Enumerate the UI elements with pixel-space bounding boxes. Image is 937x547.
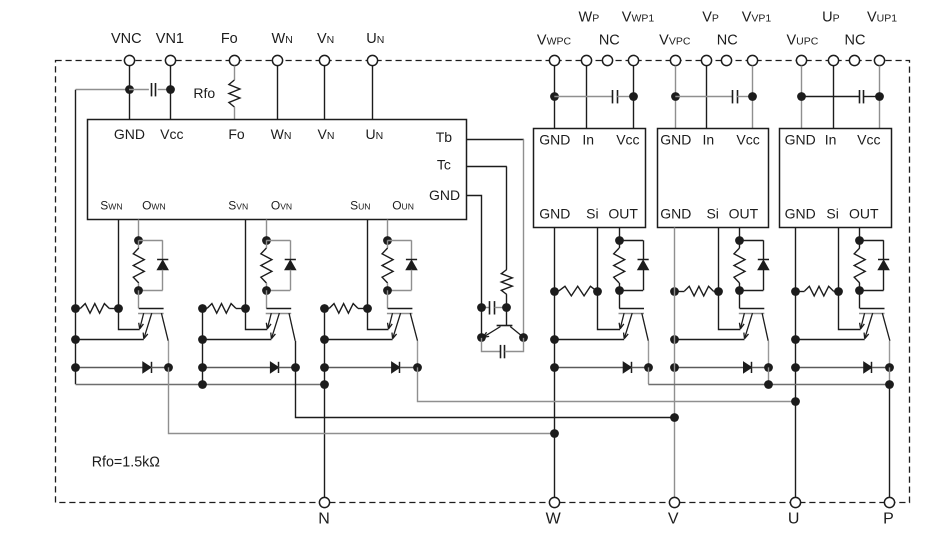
wire emitter row 6 <box>795 339 865 341</box>
wire V-phase rail <box>674 227 676 497</box>
node rail-5 emitter junction <box>670 335 679 344</box>
diode D5 (gate speed-up) <box>740 240 770 290</box>
resistor R13 (Tc) <box>501 270 512 295</box>
wire OUN to gate <box>387 290 389 308</box>
capacitor C4 (supply decoupling) <box>802 90 879 103</box>
resistor R2 (gate) <box>261 240 272 290</box>
svg-text:NC: NC <box>599 32 620 48</box>
resistor R4 (gate) <box>614 240 625 290</box>
node P bus U junction <box>885 380 894 389</box>
node N bus rail-2 junction <box>198 380 207 389</box>
wire VNC to IC <box>129 66 131 120</box>
terminal VWP1 <box>622 10 655 66</box>
wire OUT-V gate line <box>739 227 741 240</box>
node OWN net bottom <box>134 286 143 295</box>
resistor R9 (sense) <box>324 304 367 314</box>
terminal P <box>883 497 894 527</box>
wire N-rail 3 <box>324 308 326 384</box>
svg-text:GND: GND <box>429 187 460 203</box>
wire collector 6 drop <box>889 341 891 368</box>
resistor R6 (gate) <box>854 240 865 290</box>
wire UN to IC <box>372 66 374 120</box>
pin label WN (U1 top) <box>271 126 292 142</box>
pin label Si (U2 (W-phase HVIC)) <box>586 206 598 222</box>
terminal VUP1 <box>867 10 897 66</box>
svg-text:WP: WP <box>579 10 600 26</box>
terminal VUPC <box>786 32 818 65</box>
wire GND link <box>467 196 482 308</box>
svg-text:Vcc: Vcc <box>160 126 183 142</box>
wire OUT-V to gate <box>739 290 741 308</box>
svg-text:UP: UP <box>822 10 840 26</box>
svg-text:UN: UN <box>366 31 384 47</box>
wire SVN to sense emitter <box>246 308 268 329</box>
transistor Q5 (V high) body bar <box>739 313 765 315</box>
node rail-3 sense junction <box>320 304 329 313</box>
transistor Q4 (W high) main emitter <box>624 313 633 339</box>
transistor Q1 (W low) collector lead <box>161 313 168 341</box>
wire N bus <box>76 384 325 386</box>
pin label GND (U3 (V-phase HVIC) top) <box>660 132 691 148</box>
pin label GND (U4 (U-phase HVIC) top) <box>785 132 816 148</box>
terminal N <box>318 497 330 527</box>
node U2 (W-phase HVIC) Vcc junction <box>629 92 638 101</box>
wire emitter row 1 <box>76 339 144 341</box>
transistor Q3 (U low) gate bar <box>388 308 413 310</box>
node Si-U junction <box>834 287 843 296</box>
svg-text:GND: GND <box>539 132 570 148</box>
svg-text:In: In <box>582 132 594 148</box>
svg-text:GND: GND <box>539 206 570 222</box>
wire P terminal stub <box>889 384 891 498</box>
transistor Q2 (V low) body bar <box>266 313 292 315</box>
diode D3 (gate speed-up) <box>388 240 418 290</box>
node U4 (U-phase HVIC) GND junction <box>797 92 806 101</box>
low-side driver IC U1 <box>88 120 467 220</box>
pin label SVN <box>228 198 248 212</box>
diode D6 (gate speed-up) <box>860 240 890 290</box>
transistor Q1 (W low) body bar <box>138 313 164 315</box>
transistor Q3 (U low) body bar <box>387 313 413 315</box>
pin label SUN <box>350 198 370 212</box>
pin label GND (U1 right) <box>429 187 460 203</box>
wire P bus riser W <box>648 367 650 384</box>
svg-text:GND: GND <box>785 206 816 222</box>
node U-phase link junction <box>791 397 800 406</box>
node N bus rail-3 junction <box>320 380 329 389</box>
svg-text:NC: NC <box>717 32 738 48</box>
node OUT-V net top <box>735 236 744 245</box>
wire OVN to gate <box>266 290 268 308</box>
resistor R8 (sense) <box>202 304 245 314</box>
svg-text:OUT: OUT <box>608 206 638 222</box>
transistor Q2 (V low) main emitter <box>271 313 280 339</box>
pin label In (U2 (W-phase HVIC)) <box>582 132 594 148</box>
svg-text:GND: GND <box>114 126 145 142</box>
diode D2 (gate speed-up) <box>266 240 296 290</box>
node OUN net top <box>383 236 392 245</box>
terminal U <box>788 497 801 527</box>
wire OVN gate line <box>266 220 268 241</box>
svg-text:WN: WN <box>272 31 293 47</box>
pin label GND (U2 (W-phase HVIC) bottom) <box>539 206 570 222</box>
node rail-1 emitter junction <box>71 335 80 344</box>
svg-text:Tc: Tc <box>437 156 451 172</box>
node collector-1 diode junction <box>164 363 173 372</box>
node rail-1 diode junction <box>71 363 80 372</box>
wire Si-U to sense emitter <box>839 291 861 329</box>
wire collector 2 drop <box>295 341 297 368</box>
wire U2 (W-phase HVIC) GND-supply stub <box>554 66 556 129</box>
wire OWN to gate <box>138 290 140 308</box>
wire VN1 to IC <box>170 66 172 120</box>
node OUT-W net top <box>615 236 624 245</box>
svg-text:VN1: VN1 <box>156 31 184 47</box>
svg-text:VVP1: VVP1 <box>742 10 772 26</box>
node OWN net top <box>134 236 143 245</box>
module boundary (dashed outline) <box>56 61 910 503</box>
svg-text:Vcc: Vcc <box>736 132 759 148</box>
driver block U2 (W-phase HVIC) <box>534 129 646 228</box>
transistor Q5 (V high) sense emitter <box>739 313 744 329</box>
pin label VN (U1 top) <box>318 126 335 142</box>
wire T base <box>506 308 508 325</box>
svg-text:N: N <box>318 510 330 527</box>
node U3 (V-phase HVIC) Vcc junction <box>748 92 757 101</box>
pin label OWN <box>142 198 166 212</box>
svg-text:Tb: Tb <box>436 129 453 145</box>
wire SVN sense line <box>245 220 247 309</box>
terminal UN <box>366 31 384 65</box>
node U4 (U-phase HVIC) Vcc junction <box>875 92 884 101</box>
capacitor C2 (supply decoupling) <box>554 90 633 103</box>
driver block U4 (U-phase HVIC) <box>780 129 892 228</box>
terminal VN <box>317 31 334 65</box>
terminal NC (NC) <box>717 32 738 65</box>
node OUT-U net bottom <box>855 286 864 295</box>
capacitor C3 (supply decoupling) <box>675 90 752 103</box>
pin label GND (U1 top) <box>114 126 145 142</box>
node rail-2 diode junction <box>198 363 207 372</box>
wire WN to IC <box>277 66 279 120</box>
wire U-phase rail <box>795 227 797 497</box>
pin label OUT (U3 (V-phase HVIC)) <box>729 206 759 222</box>
terminal NC (NC) <box>599 32 620 65</box>
svg-text:GND: GND <box>660 206 691 222</box>
wire OUT-W to gate <box>619 290 621 308</box>
node collector-6 diode junction <box>885 363 894 372</box>
wire N terminal stub <box>324 384 326 497</box>
wire SWN to sense emitter <box>119 308 140 329</box>
pin label In (U4 (U-phase HVIC)) <box>825 132 837 148</box>
wire Si-U sense line <box>838 227 840 291</box>
wire Tb <box>467 139 524 338</box>
wire U3 (V-phase HVIC) Vcc stub <box>752 66 754 129</box>
wire SWN sense line <box>118 220 120 309</box>
transistor Q4 (W high) collector lead <box>642 313 649 341</box>
pin label OUT (U2 (W-phase HVIC)) <box>608 206 638 222</box>
wire Fo lower stub <box>234 107 236 119</box>
node W-phase link junction <box>550 429 559 438</box>
terminal Fo <box>221 31 240 65</box>
pin label UN (U1 top) <box>366 126 384 142</box>
transistor Q5 (V high) gate bar <box>740 308 765 310</box>
wire SUN to sense emitter <box>368 308 389 329</box>
terminal W <box>546 497 562 527</box>
wire Si-V to sense emitter <box>719 291 741 329</box>
transistor Q3 (U low) main emitter <box>392 313 401 339</box>
pin label Vcc (U4 (U-phase HVIC)) <box>857 132 880 148</box>
node OVN net bottom <box>262 286 271 295</box>
node rail-6 diode junction <box>791 363 800 372</box>
resistor Rfo <box>193 80 239 107</box>
pin label OUT (U4 (U-phase HVIC)) <box>849 206 879 222</box>
wire collector 4 drop <box>648 341 650 368</box>
transistor Q5 (V high) collector lead <box>762 313 768 341</box>
terminal VVPC <box>659 32 691 65</box>
svg-text:Rfo=1.5kΩ: Rfo=1.5kΩ <box>92 455 161 471</box>
transistor Q7 (temp sensor) <box>483 326 523 338</box>
diode FWD1 (antiparallel) <box>76 362 169 373</box>
transistor Q4 (W high) body bar <box>619 313 645 315</box>
diode D4 (gate speed-up) <box>619 240 649 290</box>
svg-text:VN: VN <box>317 31 334 47</box>
node rail-1 sense junction <box>71 304 80 313</box>
pin label OVN <box>271 198 292 212</box>
wire Si-W to sense emitter <box>598 291 621 329</box>
wire P bus <box>648 384 890 386</box>
transistor Q6 (U high) gate bar <box>860 308 885 310</box>
capacitor C_N (VNC-VN1) <box>129 83 170 96</box>
resistor R5 (gate) <box>734 240 745 290</box>
node rail-2 sense junction <box>198 304 207 313</box>
node rail-5 diode junction <box>670 363 679 372</box>
node Q7 collector (Tb) <box>519 333 528 342</box>
wire VN to IC <box>324 66 326 120</box>
wire N-rail 2 <box>202 308 204 384</box>
wire U3 (V-phase HVIC) In stub <box>706 66 708 129</box>
pin label Vcc (U3 (V-phase HVIC)) <box>736 132 759 148</box>
svg-text:Fo: Fo <box>221 31 238 47</box>
pin label Vcc (U1 top) <box>160 126 183 142</box>
svg-text:P: P <box>883 510 894 527</box>
resistor R7 (sense) <box>76 304 119 314</box>
node VN1 junction <box>166 85 175 94</box>
terminal NC (NC) <box>845 32 866 65</box>
transistor Q2 (V low) collector lead <box>289 313 295 341</box>
node collector-3 diode junction <box>413 363 422 372</box>
node Si-V junction <box>714 287 723 296</box>
svg-text:In: In <box>703 132 715 148</box>
terminal WN <box>272 31 293 65</box>
pin label GND (U4 (U-phase HVIC) bottom) <box>785 206 816 222</box>
terminal V <box>668 497 680 527</box>
wire OWN gate line <box>138 220 140 241</box>
svg-text:OUT: OUT <box>729 206 759 222</box>
node OVN net top <box>262 236 271 245</box>
svg-text:GND: GND <box>660 132 691 148</box>
svg-text:Rfo: Rfo <box>193 85 215 101</box>
svg-text:VWPC: VWPC <box>537 32 572 48</box>
svg-text:Si: Si <box>826 206 838 222</box>
svg-text:OWN: OWN <box>142 198 166 212</box>
transistor Q4 (W high) sense emitter <box>619 313 624 329</box>
svg-text:VNC: VNC <box>111 31 142 47</box>
wire U3 (V-phase HVIC) GND-supply stub <box>675 66 677 129</box>
node V-phase link junction <box>670 413 679 422</box>
transistor Q3 (U low) sense emitter <box>388 313 393 329</box>
node Tc <box>502 303 511 312</box>
wire emitter row 2 <box>202 339 271 341</box>
transistor Q1 (W low) sense emitter <box>139 313 144 329</box>
pin label Tb <box>436 129 453 145</box>
pin label Vcc (U2 (W-phase HVIC)) <box>616 132 639 148</box>
node rail-4 emitter junction <box>550 335 559 344</box>
resistor R10 (sense) <box>555 286 598 296</box>
node rail-4 sense junction <box>550 287 559 296</box>
wire U4 (U-phase HVIC) Vcc stub <box>879 66 881 129</box>
capacitor C5 (Tc filter) <box>482 301 507 314</box>
wire P bus riser V <box>768 367 770 384</box>
wire N-rail 1 (VNC/emitter rail) <box>75 90 77 385</box>
resistor R3 (gate) <box>382 240 393 290</box>
wire Si-W sense line <box>597 227 599 291</box>
svg-text:VUPC: VUPC <box>786 32 818 48</box>
node SVN junction <box>241 304 250 313</box>
diode FWD4 (antiparallel) <box>555 362 649 373</box>
wire W-phase link (Q1 collector) <box>169 367 555 433</box>
diode D1 (gate speed-up) <box>139 240 169 290</box>
svg-text:In: In <box>825 132 837 148</box>
svg-text:SUN: SUN <box>350 198 370 212</box>
resistor R12 (sense) <box>795 286 838 296</box>
pin label Si (U4 (U-phase HVIC)) <box>826 206 838 222</box>
pin label In (U3 (V-phase HVIC)) <box>703 132 715 148</box>
svg-text:NC: NC <box>845 32 866 48</box>
node collector-4 diode junction <box>644 363 653 372</box>
node rail-5 sense junction <box>670 287 679 296</box>
node OUN net bottom <box>383 286 392 295</box>
resistor R11 (sense) <box>675 286 718 296</box>
diode FWD3 (antiparallel) <box>324 362 417 373</box>
wire Si-V sense line <box>718 227 720 291</box>
wire Q7 emitter link <box>481 308 483 338</box>
capacitor C6 (Tb) <box>482 338 524 358</box>
terminal VWPC <box>537 32 572 65</box>
transistor Q1 (W low) gate bar <box>139 308 164 310</box>
node collector-2 diode junction <box>291 363 300 372</box>
terminal VN1 <box>156 31 184 65</box>
pin label GND (U2 (W-phase HVIC) top) <box>539 132 570 148</box>
transistor Q3 (U low) collector lead <box>410 313 417 341</box>
node collector-5 diode junction <box>764 363 773 372</box>
terminal VVP1 <box>742 10 772 66</box>
wire OUT-U to gate <box>859 290 861 308</box>
node rail-4 diode junction <box>550 363 559 372</box>
wire W-phase rail <box>554 227 556 497</box>
node Si-W junction <box>593 287 602 296</box>
node U2 (W-phase HVIC) GND junction <box>550 92 559 101</box>
transistor Q2 (V low) gate bar <box>266 308 291 310</box>
wire Tc to node <box>506 295 508 308</box>
wire Fo upper stub <box>234 66 236 80</box>
node SWN junction <box>114 304 123 313</box>
node rail-3 emitter junction <box>320 335 329 344</box>
node SUN junction <box>363 304 372 313</box>
svg-text:Vcc: Vcc <box>857 132 880 148</box>
wire SUN sense line <box>367 220 369 309</box>
wire U4 (U-phase HVIC) GND-supply stub <box>801 66 803 129</box>
node VNC junction <box>125 85 134 94</box>
pin label Tc <box>437 156 451 172</box>
svg-text:SWN: SWN <box>100 198 122 212</box>
terminal UP <box>822 10 840 66</box>
svg-text:Si: Si <box>706 206 718 222</box>
resistor R1 (gate) <box>133 240 144 290</box>
wire collector 3 drop <box>417 341 419 368</box>
transistor Q6 (U high) sense emitter <box>860 313 865 329</box>
transistor Q6 (U high) body bar <box>859 313 885 315</box>
wire P bus riser U <box>889 367 891 384</box>
wire U2 (W-phase HVIC) Vcc stub <box>633 66 635 129</box>
svg-text:GND: GND <box>785 132 816 148</box>
diode FWD2 (antiparallel) <box>202 362 295 373</box>
diode FWD5 (antiparallel) <box>675 362 768 373</box>
driver block U3 (V-phase HVIC) <box>658 129 769 228</box>
svg-text:Fo: Fo <box>228 126 245 142</box>
svg-text:W: W <box>546 510 562 527</box>
pin label SWN <box>100 198 122 212</box>
wire OUT-W gate line <box>619 227 621 240</box>
wire U-phase link (Q3 collector) <box>418 367 796 401</box>
transistor Q4 (W high) gate bar <box>619 308 644 310</box>
node Q7 emitter <box>477 333 486 342</box>
node rail-6 emitter junction <box>791 335 800 344</box>
pin label Si (U3 (V-phase HVIC)) <box>706 206 718 222</box>
node rail-2 emitter junction <box>198 335 207 344</box>
node U3 (V-phase HVIC) GND junction <box>671 92 680 101</box>
node T GND <box>477 303 486 312</box>
svg-text:Si: Si <box>586 206 598 222</box>
svg-text:U: U <box>788 510 800 527</box>
svg-text:Vcc: Vcc <box>616 132 639 148</box>
transistor Q6 (U high) main emitter <box>864 313 873 339</box>
wire OUN gate line <box>387 220 389 241</box>
svg-text:VP: VP <box>702 10 719 26</box>
svg-text:OUN: OUN <box>392 198 414 212</box>
wire V-phase link (Q2 collector) <box>296 367 675 417</box>
node OUT-W net bottom <box>615 286 624 295</box>
wire U2 (W-phase HVIC) In stub <box>586 66 588 129</box>
wire collector 1 drop <box>168 341 170 368</box>
diode FWD6 (antiparallel) <box>795 362 890 373</box>
transistor Q2 (V low) sense emitter <box>266 313 271 329</box>
svg-text:OVN: OVN <box>271 198 292 212</box>
terminal VP <box>701 10 719 66</box>
pin label GND (U3 (V-phase HVIC) bottom) <box>660 206 691 222</box>
wire U4 (U-phase HVIC) In stub <box>833 66 835 129</box>
node rail-6 sense junction <box>791 287 800 296</box>
transistor Q6 (U high) collector lead <box>882 313 890 341</box>
wire collector 5 drop <box>768 341 770 368</box>
wire OUT-U gate line <box>859 227 861 240</box>
terminal VNC <box>111 31 142 65</box>
transistor Q5 (V high) main emitter <box>744 313 753 339</box>
node P bus V junction <box>764 380 773 389</box>
svg-text:SVN: SVN <box>228 198 248 212</box>
svg-text:VVPC: VVPC <box>659 32 691 48</box>
wire emitter row 4 <box>555 339 625 341</box>
